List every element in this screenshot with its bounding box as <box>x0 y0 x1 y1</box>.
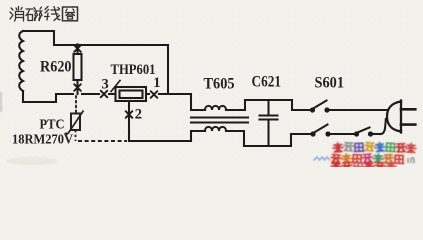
svg-text:T605: T605 <box>204 76 235 93</box>
svg-text:C621: C621 <box>252 74 282 91</box>
svg-text:18RM270V: 18RM270V <box>12 132 73 147</box>
svg-text:3: 3 <box>102 77 109 93</box>
svg-text:PTC: PTC <box>40 117 65 132</box>
svg-text:R620: R620 <box>40 59 72 76</box>
svg-text:S601: S601 <box>315 75 345 92</box>
svg-text:1: 1 <box>153 75 160 91</box>
svg-text:2: 2 <box>135 107 142 123</box>
svg-text:THP601: THP601 <box>111 62 156 78</box>
